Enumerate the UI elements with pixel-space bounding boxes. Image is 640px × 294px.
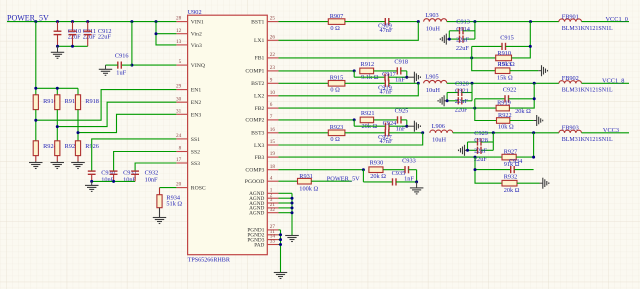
svg-text:PAD: PAD [254, 242, 264, 248]
capacitor C922 feed-forward [475, 87, 534, 109]
wire LX pin up to node [279, 133, 423, 145]
U902 left pin 8 SS2 [176, 146, 200, 156]
wire BST line R915 row [279, 82, 329, 84]
svg-text:R912: R912 [361, 61, 375, 68]
svg-text:R923: R923 [330, 124, 344, 131]
wire POWER_5V rail to VIN1 [7, 20, 176, 23]
svg-text:FB903: FB903 [562, 125, 579, 132]
U902 right pin 18 COMP3 [245, 164, 278, 174]
U902 right pin 3 AGND [249, 197, 278, 207]
ground below R924 [29, 156, 43, 169]
ground for input caps [51, 46, 64, 58]
svg-text:5: 5 [179, 59, 182, 65]
resistor R916 EN pull-up [33, 95, 57, 110]
U902 left pin 24 SS1 [176, 133, 200, 143]
resistor R919 20k FB2 upper [496, 100, 531, 115]
svg-text:30: 30 [176, 96, 182, 102]
svg-text:22uF: 22uF [456, 45, 469, 52]
svg-text:R922: R922 [498, 112, 512, 119]
ground for output caps [438, 95, 446, 106]
U902 right pin 25 BST1 [251, 16, 278, 26]
U902 right pin 11 PGND2 [247, 229, 278, 239]
svg-text:EN3: EN3 [191, 112, 202, 118]
svg-text:C917: C917 [382, 71, 396, 78]
wire rail down to VINQ [130, 22, 176, 67]
capacitor C913 22uF output [449, 19, 475, 35]
svg-text:R910: R910 [497, 50, 511, 57]
svg-text:Vin2: Vin2 [191, 32, 202, 38]
capacitor C915 feed-forward [472, 35, 531, 58]
svg-text:32: 32 [270, 207, 276, 213]
resistor R926 EN pull-down [75, 141, 99, 156]
capacitor C931 10nF soft-start [110, 170, 137, 184]
wire output node [447, 20, 559, 23]
wire comp right node [405, 71, 408, 79]
U902 right pin 7 COMP2 [245, 114, 278, 124]
wire COMP3 from pin [279, 168, 365, 171]
svg-text:C914: C914 [456, 26, 470, 33]
svg-text:VCC3: VCC3 [603, 127, 619, 134]
wire output node [453, 131, 559, 134]
ground for COMP2 network [407, 121, 421, 132]
svg-text:1nF: 1nF [396, 126, 406, 133]
svg-text:L905: L905 [425, 74, 438, 81]
svg-text:SS3: SS3 [191, 161, 200, 167]
svg-text:LX1: LX1 [254, 38, 265, 44]
wire R910 to output node [512, 22, 532, 58]
U902 right pin 14 PGND3 [247, 234, 278, 244]
capacitor C914 22uF output [449, 26, 475, 52]
svg-text:VINQ: VINQ [191, 63, 206, 69]
svg-text:L903: L903 [425, 12, 438, 19]
svg-text:0 Ω: 0 Ω [330, 136, 340, 143]
wire comp right node [405, 120, 408, 128]
wire to VCC3 rail [582, 127, 630, 134]
wire ROSC to R934 [160, 187, 177, 189]
wire C919 to LX node [389, 82, 420, 85]
resistor R932 20k FB3 lower [474, 168, 540, 194]
capacitor C918 compensation hf [374, 59, 408, 75]
resistor R924 EN pull-down [33, 141, 57, 156]
svg-text:13: 13 [176, 39, 182, 45]
svg-text:AGND: AGND [249, 211, 264, 217]
wire COMP2 from pin [279, 118, 356, 121]
svg-text:10nF: 10nF [123, 176, 136, 183]
capacitor C912 22uF input bypass [84, 22, 112, 47]
wire R923 to C927 [345, 132, 385, 134]
wire output node [447, 82, 559, 85]
wire R919 to output node [509, 83, 535, 108]
svg-text:R921: R921 [361, 110, 375, 117]
U902 right pin 21 AGND [249, 202, 278, 212]
svg-text:17: 17 [176, 157, 182, 163]
svg-text:C913: C913 [456, 19, 470, 26]
svg-text:51k Ω: 51k Ω [166, 200, 182, 207]
wire R907 to C909 [345, 21, 385, 23]
U902 right pin 4 PGOOD [245, 175, 279, 185]
svg-text:22uF: 22uF [474, 148, 487, 155]
svg-text:C916: C916 [115, 53, 129, 60]
svg-text:POWER_5V: POWER_5V [327, 176, 360, 183]
wire R931 to POWER_5V [311, 176, 360, 183]
svg-text:FB901: FB901 [562, 13, 579, 20]
svg-text:10uH: 10uH [426, 25, 440, 32]
U902 right pin 2 AGND [249, 192, 278, 202]
wire BST line R923 row [279, 132, 329, 134]
svg-text:47nF: 47nF [380, 27, 393, 34]
resistor R915 0 ohm bootstrap [328, 75, 345, 94]
ground for COMP3 network [410, 182, 424, 194]
svg-text:LX2: LX2 [254, 94, 265, 100]
wire PGOOD from pin [279, 180, 298, 182]
svg-text:C934: C934 [509, 158, 523, 165]
svg-text:28: 28 [176, 16, 182, 22]
capacitor C934 feed-forward [475, 157, 534, 173]
capacitor C928 22uF output [468, 137, 494, 163]
svg-text:Vin3: Vin3 [191, 43, 202, 49]
resistor R910 15k FB1 upper [496, 50, 515, 68]
inductor L905 10uH [424, 74, 447, 95]
wire FB2 from pin [279, 107, 497, 110]
resistor R922 10k FB2 lower [475, 108, 534, 130]
svg-text:FB3: FB3 [255, 155, 265, 161]
wire input caps bottom to ground [56, 45, 88, 48]
capacitor C909 47nF bootstrap [378, 18, 393, 34]
svg-text:100k Ω: 100k Ω [299, 186, 318, 193]
svg-text:10: 10 [270, 90, 276, 96]
U902 right pin 32 AGND [249, 207, 278, 217]
svg-text:FB902: FB902 [562, 75, 579, 82]
svg-text:4: 4 [270, 175, 273, 181]
resistor R930 compensation [369, 160, 386, 180]
ferrite bead FB903 BLM31KN121SN1L [559, 125, 613, 144]
svg-text:LX3: LX3 [254, 143, 265, 149]
svg-text:1uF: 1uF [116, 70, 126, 77]
U902 right pin 15 LX3 [254, 139, 279, 149]
wire output caps verticals [448, 22, 475, 41]
ground for C916 [99, 65, 112, 75]
svg-text:VIN1: VIN1 [191, 20, 204, 26]
svg-text:10uH: 10uH [426, 87, 440, 94]
U902 right pin 6 FB2 [255, 102, 279, 112]
resistor R907 0 ohm bootstrap [328, 13, 345, 32]
capacitor C935 1nF compensation [363, 170, 416, 186]
svg-text:SS1: SS1 [191, 137, 200, 143]
svg-text:C918: C918 [394, 59, 408, 66]
wire rail down to EN pull-up resistors [34, 22, 78, 95]
svg-text:16: 16 [270, 127, 276, 133]
svg-text:C920: C920 [455, 80, 469, 87]
svg-text:33: 33 [270, 239, 276, 245]
wire C927 to LX node [389, 131, 424, 134]
svg-text:7: 7 [270, 114, 273, 120]
svg-text:U902: U902 [188, 9, 202, 16]
capacitor C927 47nF bootstrap [378, 129, 393, 145]
svg-text:15k Ω: 15k Ω [497, 74, 513, 81]
svg-text:26: 26 [270, 34, 276, 40]
capacitor C929 22uF output [468, 130, 494, 146]
svg-text:BLM31KN121SN1L: BLM31KN121SN1L [562, 88, 613, 94]
U902 left pin 30 EN2 [176, 96, 201, 106]
capacitor C920 22uF output [447, 80, 472, 96]
wire to VCC1_0 rail [582, 16, 630, 23]
wire LX pin up to node [279, 22, 419, 41]
ground below R934 [153, 208, 166, 224]
svg-text:POWER_5V: POWER_5V [7, 13, 49, 22]
U902 left pin 12 Vin2 [176, 28, 202, 38]
U902 right pin 27 PGND1 [247, 224, 278, 234]
wire SS pin to C930 [92, 139, 177, 171]
capacitor C924 1nF compensation [354, 120, 407, 133]
svg-text:FB2: FB2 [255, 106, 265, 112]
wire SS pin to C932 [135, 163, 176, 171]
svg-text:L906: L906 [432, 123, 445, 130]
svg-text:22uF: 22uF [456, 37, 469, 44]
capacitor C910 22uF input bypass [54, 22, 82, 47]
svg-text:24: 24 [176, 133, 182, 139]
wire EN divider middle columns [36, 110, 78, 141]
svg-text:8: 8 [179, 146, 182, 152]
svg-text:22uF: 22uF [98, 33, 111, 40]
capacitor C933 compensation hf [383, 157, 417, 173]
wire R915 to C919 [345, 82, 385, 84]
U902 left pin 28 VIN1 [176, 16, 204, 26]
wire output caps verticals [446, 83, 472, 102]
svg-text:6: 6 [270, 102, 273, 108]
svg-text:C933: C933 [402, 157, 416, 164]
U902 right pin 26 LX1 [254, 34, 279, 44]
wire AGND bus [279, 193, 294, 235]
wire soft-start caps common [90, 180, 135, 183]
svg-text:0 Ω: 0 Ω [330, 25, 340, 32]
svg-text:23: 23 [270, 65, 276, 71]
svg-text:BLM31KN121SN1L: BLM31KN121SN1L [562, 137, 613, 143]
U902 left pin 31 EN3 [176, 108, 201, 118]
resistor R912 compensation [360, 61, 379, 81]
svg-text:20k Ω: 20k Ω [504, 187, 520, 194]
capacitor C911 22uF input bypass [69, 22, 97, 47]
U902 right pin 23 COMP1 [245, 65, 278, 75]
svg-text:VCC1_8: VCC1_8 [602, 78, 624, 85]
U902 right pin 16 BST3 [251, 127, 278, 137]
wire SS pin to C931 [114, 152, 177, 172]
U902 left pin 13 Vin3 [176, 39, 202, 49]
inductor L906 10uH [430, 123, 453, 144]
svg-text:R931: R931 [299, 173, 313, 180]
svg-text:C925: C925 [395, 108, 409, 115]
svg-text:C928: C928 [474, 137, 488, 144]
svg-text:9: 9 [270, 77, 273, 83]
wire C909 to LX node [389, 20, 420, 23]
svg-text:19: 19 [270, 151, 276, 157]
svg-text:PGOOD: PGOOD [245, 179, 265, 185]
svg-text:25: 25 [270, 16, 276, 22]
svg-text:SS2: SS2 [191, 150, 200, 156]
op-amp U902 TPS65266RHBR regulator IC body [188, 9, 268, 264]
svg-text:10uH: 10uH [432, 137, 446, 144]
svg-text:29: 29 [176, 84, 182, 90]
svg-text:BST1: BST1 [251, 19, 264, 25]
resistor R934 51k oscillator set [157, 188, 183, 208]
wire to VCC1_8 rail [582, 78, 630, 85]
capacitor C925 compensation hf [374, 108, 409, 124]
svg-text:R932: R932 [504, 174, 518, 181]
wire comp right node [415, 170, 418, 184]
svg-text:C922: C922 [503, 87, 517, 94]
svg-text:20k Ω: 20k Ω [370, 173, 386, 180]
svg-text:EN1: EN1 [191, 88, 202, 94]
U902 right pin 1 AGND [249, 187, 278, 197]
U902 left pin 29 EN1 [176, 84, 201, 94]
wire rail to Vin2 Vin3 [155, 22, 177, 45]
svg-text:22uF: 22uF [455, 98, 468, 105]
svg-text:R919: R919 [497, 100, 511, 107]
capacitor C917 1nF compensation [354, 71, 407, 84]
wire FB1 from pin [279, 56, 496, 59]
resistor R918 EN pull-up [75, 95, 99, 110]
svg-text:22: 22 [270, 52, 276, 58]
svg-text:12: 12 [176, 28, 182, 34]
wire FB3 from pin [279, 156, 503, 159]
svg-text:15: 15 [270, 139, 276, 145]
svg-text:COMP1: COMP1 [245, 69, 264, 75]
resistor R913 15k FB1 lower [472, 58, 539, 81]
svg-text:EN2: EN2 [191, 100, 202, 106]
ferrite bead FB902 BLM31KN121SN1L [559, 75, 613, 94]
wire BST line R907 row [279, 21, 329, 23]
svg-text:BLM31KN121SN1L: BLM31KN121SN1L [562, 26, 613, 32]
svg-text:BST2: BST2 [251, 81, 264, 87]
ground for PGND PAD [274, 272, 287, 279]
svg-text:10nF: 10nF [145, 176, 158, 183]
resistor R931 100k PGOOD pull-up [298, 173, 319, 192]
ground for soft-start caps [85, 181, 99, 191]
svg-text:31: 31 [176, 108, 182, 114]
wire EN1 from pin to divider [34, 90, 176, 122]
ground for R913 [538, 65, 547, 76]
capacitor C932 10nF soft-start [131, 170, 158, 184]
wire LX pin up to node [279, 83, 419, 96]
U902 left pin 5 VINQ [176, 59, 206, 69]
wire EN2 from pin to divider [56, 102, 177, 128]
svg-text:R913: R913 [497, 61, 511, 68]
capacitor C919 47nF bootstrap [378, 80, 393, 96]
resistor R925 EN pull-down [55, 141, 79, 156]
svg-text:COMP3: COMP3 [245, 168, 264, 174]
svg-text:COMP2: COMP2 [245, 118, 264, 124]
wire PGND bus [279, 230, 283, 272]
svg-text:R930: R930 [370, 160, 384, 167]
svg-text:0 Ω: 0 Ω [330, 87, 340, 94]
wire COMP1 from pin [279, 69, 356, 72]
wire EN3 from pin to divider [77, 114, 177, 134]
svg-text:TPS65266RHBR: TPS65266RHBR [188, 257, 231, 263]
svg-text:1nF: 1nF [404, 176, 414, 183]
svg-text:47nF: 47nF [380, 138, 393, 145]
svg-text:18: 18 [270, 164, 276, 170]
U902 right pin 9 BST2 [251, 77, 278, 87]
U902 right pin 22 FB1 [255, 52, 279, 62]
ground for R922 [533, 115, 542, 126]
capacitor C921 22uF output [447, 88, 472, 114]
svg-text:R927: R927 [504, 148, 518, 155]
ground below R925 [51, 156, 65, 169]
capacitor C930 10nF soft-start [88, 170, 115, 184]
svg-text:ROSC: ROSC [191, 186, 206, 192]
inductor L903 10uH [424, 12, 447, 33]
svg-text:R907: R907 [330, 13, 344, 20]
svg-text:C929: C929 [474, 130, 488, 137]
wire R927 to output node [516, 133, 535, 159]
ground below R926 [71, 156, 85, 169]
node POWER_5V top-left port label [7, 13, 49, 22]
ground for AGND [285, 235, 299, 242]
svg-text:R918: R918 [85, 98, 99, 105]
ground for output caps [440, 34, 448, 45]
wire output caps verticals [466, 133, 493, 152]
svg-text:C915: C915 [500, 35, 514, 42]
resistor R921 compensation [360, 110, 377, 130]
U902 left pin 17 SS3 [176, 157, 200, 167]
svg-text:BST3: BST3 [251, 131, 264, 137]
U902 right pin 33 PAD [254, 239, 278, 249]
resistor R917 EN pull-up [55, 95, 79, 110]
svg-text:10k Ω: 10k Ω [498, 123, 514, 130]
svg-text:FB1: FB1 [255, 56, 265, 62]
U902 left pin 20 ROSC [176, 182, 206, 192]
resistor R923 0 ohm bootstrap [328, 124, 345, 143]
U902 right pin 10 LX2 [254, 90, 279, 100]
svg-text:C921: C921 [455, 88, 469, 95]
ground for COMP1 network [407, 72, 421, 83]
svg-text:VCC1_0: VCC1_0 [606, 16, 628, 23]
ferrite bead FB901 BLM31KN121SN1L [559, 13, 613, 32]
svg-text:1nF: 1nF [395, 77, 405, 84]
svg-text:R915: R915 [330, 75, 344, 82]
svg-text:47nF: 47nF [380, 89, 393, 96]
capacitor C916 1uF on VINQ [106, 53, 132, 77]
ground for R932 [540, 178, 549, 189]
svg-text:20k Ω: 20k Ω [515, 108, 531, 115]
U902 right pin 19 FB3 [255, 151, 279, 161]
svg-text:20: 20 [176, 182, 182, 188]
ground for output caps [459, 145, 467, 156]
resistor R927 91k FB3 upper [502, 148, 523, 168]
